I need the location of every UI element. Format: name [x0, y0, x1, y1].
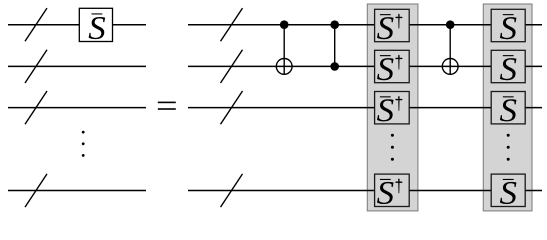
gate box S-bar q3 right [491, 92, 525, 124]
label S-bar-dagger q1 [377, 14, 403, 40]
CNOT 2 control dot q1 [446, 20, 455, 29]
bundle slash q2 right [221, 50, 243, 83]
wire q2 right [188, 65, 542, 67]
gate box S-bar-dagger q3 [375, 92, 410, 124]
bundle slash qn right [221, 174, 243, 207]
CNOT 1 target q2 [276, 59, 292, 75]
wire q2 left [8, 65, 146, 67]
label S-bar-dagger q2 [377, 55, 403, 81]
CZ control dot q1 [330, 20, 339, 29]
gate box S-bar q1 right [491, 9, 525, 41]
label S-bar-dagger qn [377, 178, 403, 204]
wire q3 left [8, 107, 146, 109]
gate box S-bar-dagger q2 [375, 50, 410, 82]
shaded column 2 (S layer) [483, 4, 532, 211]
label S-bar q3 right [500, 96, 516, 121]
vdots left circuit [82, 131, 85, 157]
CNOT 2 target q2 [442, 59, 458, 75]
bundle slash q3 right [221, 91, 243, 124]
label S-bar-dagger q3 [377, 96, 403, 122]
wire q1 left [8, 24, 146, 26]
equals sign [158, 102, 176, 110]
gate box S-bar left [79, 8, 112, 41]
bundle slash q2 left [25, 50, 47, 83]
gate box S-bar q2 right [491, 50, 525, 82]
CZ control dot q2 [330, 62, 339, 71]
wire q1 right [188, 24, 542, 26]
CNOT 1 vertical wire [283, 25, 285, 75]
CNOT 2 vertical wire [449, 25, 451, 75]
label S-bar qn right [500, 179, 516, 204]
bundle slash q3 left [25, 91, 47, 124]
label S-bar left [89, 13, 105, 39]
CZ vertical wire [334, 25, 336, 67]
vdots column 2 [507, 134, 510, 161]
wire qn left [8, 190, 146, 192]
gate box S-bar-dagger qn [375, 174, 410, 206]
bundle slash q1 right [221, 8, 243, 41]
shaded column 1 (S-dagger layer) [367, 4, 418, 211]
bundle slash qn left [25, 174, 47, 207]
vdots column 1 [391, 134, 394, 161]
CNOT 1 control dot q1 [280, 20, 289, 29]
gate box S-bar-dagger q1 [375, 9, 410, 41]
label S-bar q2 right [500, 55, 516, 80]
label S-bar q1 right [500, 14, 516, 39]
wire q3 right [188, 107, 542, 109]
bundle slash q1 left [25, 8, 47, 41]
wire qn right [188, 190, 542, 192]
gate box S-bar qn right [491, 174, 525, 206]
